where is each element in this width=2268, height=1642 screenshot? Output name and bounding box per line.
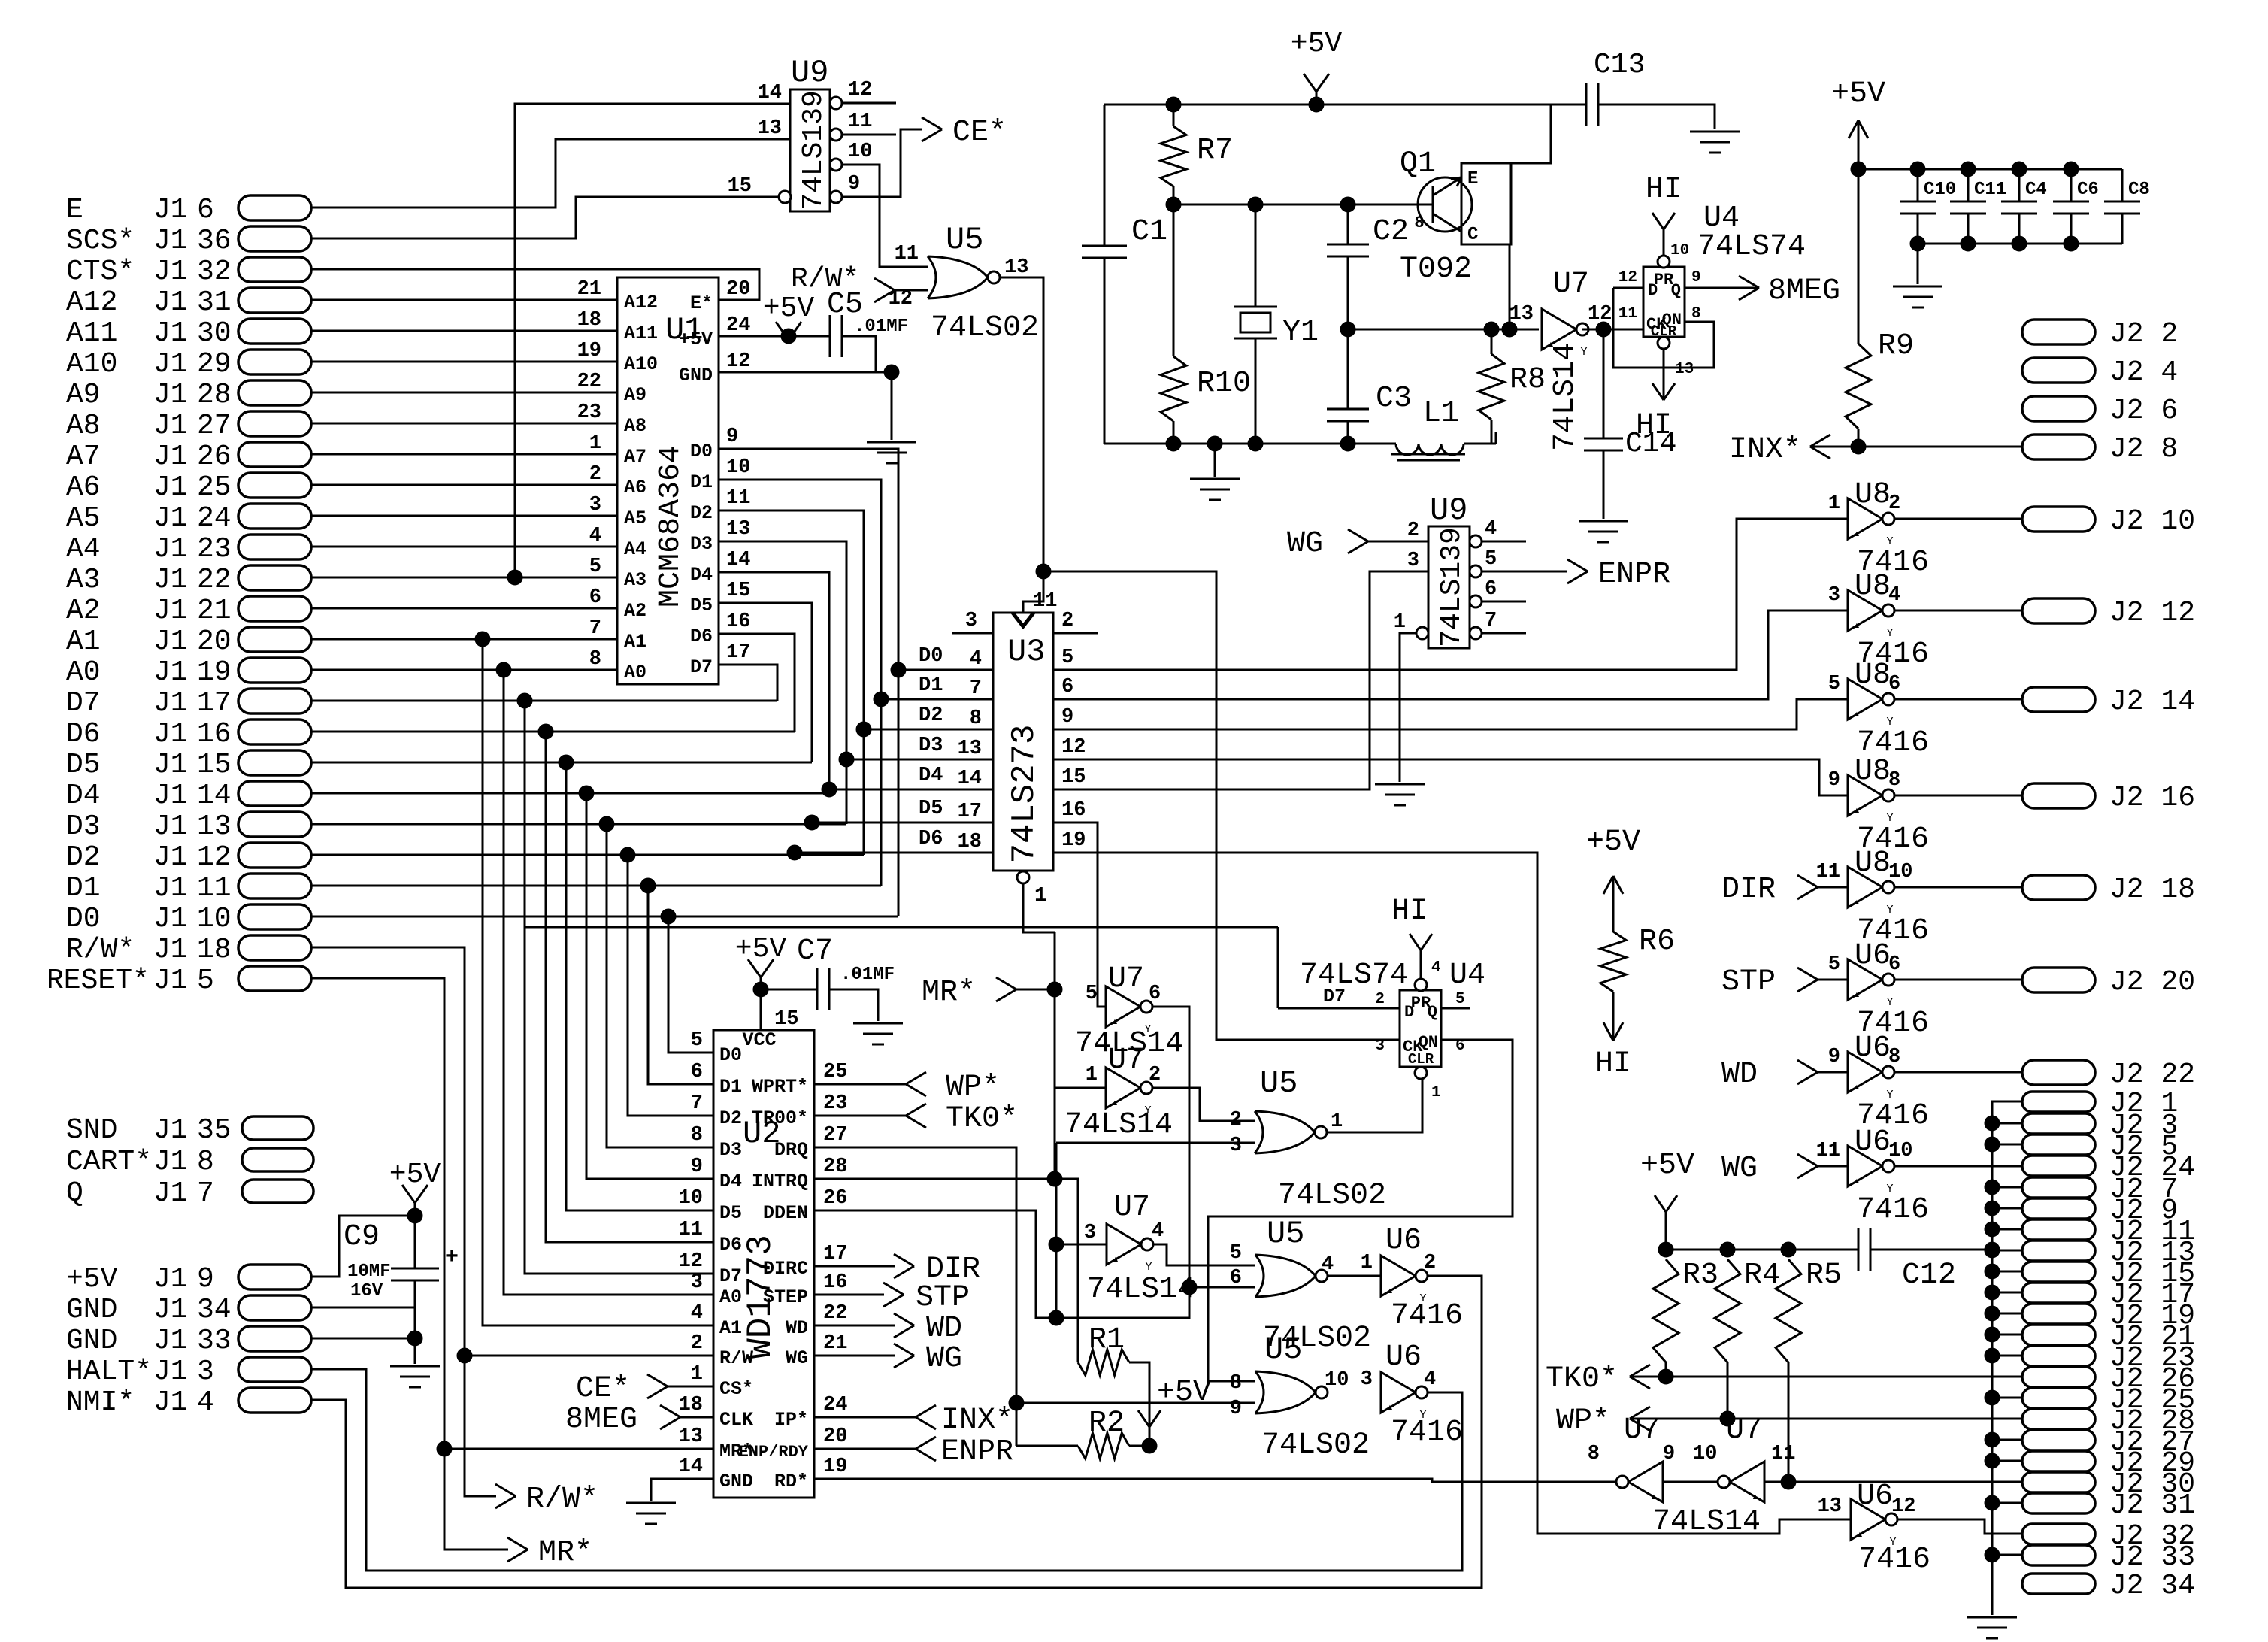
- svg-text:12: 12: [679, 1250, 703, 1273]
- resistor R5: [1776, 1259, 1801, 1362]
- svg-text:D7: D7: [66, 687, 101, 720]
- svg-text:A5: A5: [66, 502, 101, 535]
- svg-text:3: 3: [1407, 550, 1419, 572]
- svg-text:8: 8: [970, 707, 982, 730]
- junction rail R10: [1166, 436, 1181, 451]
- U4 PR pin 10 to HI: [1658, 256, 1670, 268]
- svg-text:74LS139: 74LS139: [1436, 527, 1468, 647]
- svg-text:13: 13: [758, 117, 782, 140]
- svg-text:CE*: CE*: [576, 1372, 630, 1406]
- svg-text:6: 6: [1485, 578, 1497, 601]
- wire U7 pin3 input: [1056, 1244, 1107, 1246]
- svg-text:10: 10: [1888, 861, 1912, 883]
- svg-text:17: 17: [197, 687, 232, 720]
- U2 GND pin to ground: [651, 1479, 713, 1501]
- J2 pin 4 pad: [2022, 358, 2095, 383]
- +5V symbol at C9: [414, 1203, 416, 1216]
- svg-text:11: 11: [1618, 305, 1637, 323]
- junction gnd bus: [1985, 1116, 2000, 1131]
- J2 28 pad: [2022, 1409, 2095, 1429]
- svg-text:2: 2: [1375, 991, 1385, 1008]
- svg-text:D6: D6: [719, 1234, 742, 1256]
- wire C7 to ground: [829, 989, 878, 1021]
- svg-text:J2 12: J2 12: [2109, 597, 2195, 629]
- svg-text:▴: ▴: [1853, 1080, 1861, 1094]
- junction gnd bus: [1985, 1201, 2000, 1216]
- oscillator ground rail: [1104, 443, 1396, 445]
- U4 PR pin 4 to HI: [1415, 979, 1427, 991]
- svg-text:4: 4: [691, 1302, 703, 1325]
- svg-text:DIR: DIR: [1721, 873, 1776, 907]
- svg-text:C8: C8: [2128, 180, 2150, 200]
- svg-text:17: 17: [823, 1243, 847, 1265]
- wire U7 pin1 input: [1055, 1087, 1106, 1089]
- U9 pin 1 bubble to ground: [1416, 627, 1428, 639]
- svg-text:20: 20: [726, 278, 750, 301]
- svg-text:11: 11: [197, 872, 232, 904]
- svg-text:CE*: CE*: [952, 116, 1007, 150]
- J2 18 pad: [2022, 875, 2095, 900]
- wire Q1 emitter to +5V rail: [1511, 105, 1551, 163]
- svg-text:ENPR: ENPR: [941, 1435, 1013, 1469]
- svg-text:D2: D2: [719, 1107, 742, 1129]
- wire U1 D6 to bus: [719, 634, 795, 732]
- svg-text:WG: WG: [926, 1342, 962, 1376]
- +5V symbol above U1 pin 24: [776, 322, 789, 340]
- svg-text:D: D: [1648, 281, 1658, 300]
- svg-text:A11: A11: [624, 323, 658, 344]
- svg-text:3: 3: [1361, 1368, 1373, 1391]
- U3 pin 2 stub: [1053, 632, 1098, 635]
- svg-text:12: 12: [197, 841, 232, 874]
- resistor R10: [1173, 204, 1175, 356]
- svg-text:15: 15: [726, 580, 750, 602]
- svg-text:▴: ▴: [1853, 1174, 1861, 1188]
- svg-text:J1: J1: [153, 286, 188, 319]
- svg-text:CS*: CS*: [719, 1378, 753, 1400]
- svg-text:J1: J1: [153, 626, 188, 658]
- junction +5V cap rail: [1851, 162, 1866, 177]
- svg-text:A0: A0: [66, 656, 101, 689]
- svg-text:25: 25: [197, 471, 232, 504]
- junction bus D2: [856, 722, 871, 737]
- svg-text:14: 14: [958, 768, 982, 790]
- svg-text:U6: U6: [1855, 1032, 1891, 1065]
- svg-text:13: 13: [679, 1425, 703, 1448]
- svg-text:WG: WG: [1287, 527, 1323, 561]
- svg-text:9: 9: [1061, 706, 1073, 729]
- cap bank rail: [1858, 168, 2122, 171]
- svg-text:D4: D4: [919, 765, 943, 787]
- junction bus D1: [874, 692, 889, 707]
- svg-text:D3: D3: [690, 533, 713, 555]
- svg-text:A3: A3: [624, 569, 646, 591]
- svg-text:▴: ▴: [1853, 804, 1861, 817]
- wire U6 to J2 24: [1894, 1165, 2022, 1168]
- svg-text:U6: U6: [1855, 1125, 1891, 1159]
- junction R3 top: [1658, 1242, 1673, 1257]
- svg-text:9: 9: [726, 426, 738, 448]
- svg-text:4: 4: [970, 648, 982, 671]
- svg-text:25: 25: [823, 1061, 847, 1083]
- J2 21 pad: [2022, 1325, 2095, 1345]
- svg-text:R9: R9: [1878, 329, 1914, 363]
- svg-text:74LS02: 74LS02: [931, 311, 1039, 345]
- svg-text:J2 10: J2 10: [2109, 505, 2195, 538]
- wire A0 drop to U2: [311, 669, 504, 671]
- svg-text:A11: A11: [66, 317, 117, 350]
- svg-text:J1: J1: [153, 841, 188, 874]
- STP output tag: [814, 1294, 884, 1296]
- svg-text:7: 7: [197, 1177, 214, 1210]
- svg-text:J1: J1: [153, 471, 188, 504]
- svg-text:A12: A12: [66, 286, 117, 319]
- svg-text:32: 32: [197, 256, 232, 288]
- capacitor C4: [2012, 162, 2027, 177]
- crystal Y1: [1255, 204, 1257, 307]
- svg-text:12: 12: [1588, 303, 1612, 326]
- svg-text:5: 5: [1828, 673, 1840, 695]
- svg-text:27: 27: [823, 1124, 847, 1147]
- wire A1 drop to U2: [311, 638, 483, 641]
- svg-text:A8: A8: [66, 410, 101, 442]
- svg-text:27: 27: [197, 410, 232, 442]
- junction gnd bus: [1985, 1137, 2000, 1152]
- svg-text:U5: U5: [946, 222, 983, 258]
- svg-text:WD: WD: [786, 1317, 808, 1339]
- svg-text:21: 21: [197, 595, 232, 627]
- svg-text:19: 19: [577, 340, 601, 362]
- svg-text:9: 9: [1663, 1443, 1675, 1465]
- svg-text:12: 12: [1891, 1495, 1915, 1518]
- junction gnd bus: [1985, 1264, 2000, 1279]
- junction D6 at drop: [538, 724, 553, 739]
- svg-text:U8: U8: [1855, 570, 1891, 604]
- J2 26 pad: [2022, 1367, 2095, 1387]
- J2 22 pad: [2022, 1060, 2095, 1085]
- svg-text:DRQ: DRQ: [774, 1139, 808, 1161]
- wire clock to U4 CK (via long vertical): [1043, 571, 1400, 1040]
- junction Y1 top: [1248, 197, 1263, 212]
- svg-text:TK0*: TK0*: [946, 1102, 1018, 1136]
- junction rail C3: [1340, 436, 1355, 451]
- svg-text:9: 9: [1230, 1398, 1242, 1420]
- svg-text:36: 36: [197, 225, 232, 257]
- svg-text:6: 6: [691, 1061, 703, 1083]
- INTRQ wire to R1: [814, 1179, 1078, 1362]
- svg-text:E: E: [1467, 169, 1478, 189]
- svg-text:J1: J1: [153, 687, 188, 720]
- junction R7 top: [1166, 97, 1181, 112]
- U3 input pin 4 (D0): [898, 669, 993, 671]
- svg-text:17: 17: [726, 641, 750, 664]
- svg-text:D4: D4: [66, 780, 101, 812]
- svg-text:3: 3: [589, 494, 601, 517]
- svg-text:GND: GND: [719, 1471, 753, 1492]
- wire U1 pin 24 +5V rail: [719, 335, 830, 338]
- wire A0 to U1 pin 8: [311, 669, 617, 671]
- svg-text:IP*: IP*: [774, 1409, 808, 1431]
- svg-text:30: 30: [197, 317, 232, 350]
- svg-text:MR*: MR*: [922, 976, 976, 1010]
- J2 31 pad: [2022, 1493, 2095, 1513]
- wire A8 to U1 pin 23: [311, 423, 617, 425]
- svg-text:▴: ▴: [1112, 1253, 1119, 1266]
- svg-text:74LS02: 74LS02: [1261, 1428, 1370, 1462]
- svg-text:DIRC: DIRC: [763, 1258, 808, 1280]
- svg-text:21: 21: [823, 1332, 847, 1355]
- svg-text:74LS139: 74LS139: [798, 90, 830, 211]
- svg-text:D2: D2: [919, 704, 943, 727]
- svg-text:R10: R10: [1197, 367, 1251, 401]
- svg-text:+5V: +5V: [679, 329, 713, 350]
- svg-text:28: 28: [197, 379, 232, 411]
- svg-text:J1: J1: [153, 810, 188, 843]
- wire DDEN to U5 pin3: [1056, 1142, 1255, 1144]
- svg-text:CTS*: CTS*: [66, 256, 135, 288]
- svg-text:J1: J1: [153, 749, 188, 781]
- R/W* bottom tag: [495, 1484, 516, 1496]
- svg-text:2: 2: [1230, 1109, 1242, 1132]
- cap bank bottom rail: [1918, 243, 2122, 245]
- wire DRQ to U5 pin9: [1016, 1402, 1255, 1404]
- svg-text:J1: J1: [153, 718, 188, 750]
- svg-text:U7: U7: [1114, 1191, 1150, 1225]
- svg-text:.01MF: .01MF: [840, 965, 895, 985]
- U3 pin 5 to U8 buffer 1: [1053, 519, 1848, 670]
- wire U7 pin2 to U5 pin2: [1152, 1088, 1255, 1121]
- svg-text:J1: J1: [153, 780, 188, 812]
- junction A1 at drop: [475, 632, 490, 647]
- J2 ground bus: [1992, 1101, 2022, 1615]
- svg-text:U8: U8: [1855, 755, 1891, 789]
- svg-text:14: 14: [726, 549, 750, 571]
- svg-text:13: 13: [197, 810, 232, 843]
- junction U7 out: [1596, 322, 1611, 337]
- U4 CLR pin 1 bubble: [1415, 1067, 1427, 1079]
- svg-text:J2 33: J2 33: [2109, 1541, 2195, 1574]
- svg-text:C: C: [1467, 225, 1478, 245]
- svg-text:12: 12: [848, 79, 872, 101]
- svg-text:J2 2: J2 2: [2109, 318, 2178, 350]
- svg-text:5: 5: [691, 1029, 703, 1052]
- U3 pin 6 to U8 buffer 2: [1053, 610, 1848, 699]
- svg-text:16: 16: [1061, 799, 1086, 822]
- svg-text:1: 1: [1331, 1110, 1343, 1133]
- svg-text:15: 15: [774, 1008, 798, 1031]
- svg-text:6: 6: [197, 194, 214, 226]
- junction D4 at drop: [579, 786, 594, 801]
- wire U1 pin 12 GND: [719, 371, 892, 374]
- wire RESET* to U2 MR*: [311, 978, 508, 1550]
- svg-text:10: 10: [197, 903, 232, 935]
- wire to C14: [1603, 329, 1605, 438]
- WD output tag: [814, 1325, 895, 1327]
- svg-text:11: 11: [1771, 1443, 1795, 1465]
- U3 input pin 7 (D1): [881, 698, 993, 701]
- capacitor C1: [1104, 105, 1106, 246]
- svg-text:1: 1: [1828, 492, 1840, 515]
- junction bus C12: [1985, 1242, 2000, 1257]
- svg-text:+: +: [445, 1245, 459, 1271]
- wire U8 to J2 18: [1894, 886, 2022, 889]
- J2 25 pad: [2022, 1388, 2095, 1408]
- svg-text:TR00*: TR00*: [752, 1107, 808, 1129]
- junction U5 pin6: [1182, 1280, 1197, 1295]
- svg-text:74LS14: 74LS14: [1549, 343, 1582, 451]
- svg-text:3: 3: [1375, 1038, 1385, 1055]
- capacitor C8: [2121, 169, 2124, 201]
- junction gnd bus: [1985, 1547, 2000, 1562]
- junction rail gnd: [1207, 436, 1222, 451]
- U9 pin 7 stub: [1470, 627, 1482, 639]
- svg-text:NMI*: NMI*: [66, 1386, 135, 1419]
- ground at C9: [390, 1365, 440, 1368]
- svg-text:J2 20: J2 20: [2109, 966, 2195, 998]
- svg-text:MCM68A364: MCM68A364: [654, 445, 688, 607]
- J2 pin 2 pad: [2022, 320, 2095, 344]
- svg-text:U4: U4: [1449, 959, 1485, 992]
- svg-text:J2 18: J2 18: [2109, 874, 2195, 906]
- svg-text:6: 6: [1888, 673, 1900, 695]
- svg-text:▴: ▴: [1853, 527, 1861, 541]
- wire C13 to ground: [1598, 105, 1715, 129]
- WP* tag at U2: [814, 1083, 906, 1086]
- svg-text:2: 2: [691, 1332, 703, 1355]
- svg-text:A5: A5: [624, 507, 646, 529]
- wire D1 drop to U2: [311, 885, 881, 887]
- wire C12 to bus: [1870, 1249, 1992, 1251]
- svg-text:U6: U6: [1857, 1480, 1893, 1513]
- svg-text:A1: A1: [624, 631, 646, 653]
- svg-text:J2 4: J2 4: [2109, 356, 2178, 389]
- capacitor C14: [1584, 438, 1623, 440]
- svg-text:8: 8: [589, 648, 601, 671]
- svg-text:A2: A2: [66, 595, 101, 627]
- svg-text:D2: D2: [690, 502, 713, 524]
- svg-text:74LS14: 74LS14: [1064, 1108, 1173, 1142]
- svg-text:▴: ▴: [1386, 1401, 1394, 1414]
- FDC U2 WD1773: [713, 1030, 814, 1498]
- junction bus D0: [891, 662, 906, 677]
- svg-text:D0: D0: [719, 1044, 742, 1066]
- svg-text:7416: 7416: [1391, 1416, 1463, 1450]
- svg-text:C12: C12: [1902, 1259, 1956, 1292]
- svg-text:11: 11: [848, 111, 872, 133]
- wire E to U9 pin 13: [311, 139, 790, 208]
- svg-text:4: 4: [197, 1386, 214, 1419]
- svg-text:7: 7: [970, 677, 982, 700]
- svg-text:10: 10: [848, 141, 872, 163]
- wire C5 right plate to GND net: [842, 336, 876, 372]
- junction base node: [1166, 197, 1181, 212]
- svg-text:3: 3: [1230, 1135, 1242, 1157]
- TK0* tag at U2: [814, 1115, 906, 1117]
- junction VCC C7: [753, 982, 768, 997]
- DRQ wire to R2/U5: [814, 1147, 1016, 1446]
- svg-text:RESET*: RESET*: [47, 965, 150, 997]
- svg-text:J1: J1: [153, 533, 188, 565]
- svg-text:3: 3: [965, 610, 977, 632]
- wire A2 to U1 pin 6: [311, 607, 617, 610]
- svg-text:33: 33: [197, 1325, 232, 1357]
- junction R5 top: [1781, 1242, 1796, 1257]
- svg-text:D1: D1: [719, 1076, 742, 1098]
- svg-text:D5: D5: [719, 1202, 742, 1224]
- wire U1 D2 to bus: [719, 510, 864, 855]
- svg-text:11: 11: [679, 1219, 703, 1241]
- ground of oscillator: [1214, 444, 1216, 477]
- junction gnd bus: [1985, 1348, 2000, 1363]
- svg-text:29: 29: [197, 348, 232, 380]
- svg-text:D3: D3: [66, 810, 101, 843]
- svg-text:A12: A12: [624, 292, 658, 314]
- U3 input pin 13 (D3): [846, 759, 993, 761]
- svg-text:R/W*: R/W*: [66, 934, 135, 966]
- U3 input pin 17 (D5): [812, 822, 993, 824]
- wire J2 30 row: [1764, 1481, 2022, 1483]
- J2 pin 6 pad: [2022, 396, 2095, 421]
- junction WP R4: [1720, 1411, 1735, 1426]
- svg-text:6: 6: [1061, 676, 1073, 698]
- J2 pin 8 pad: [2022, 435, 2095, 459]
- svg-text:A8: A8: [624, 415, 646, 437]
- junction TK0 R3: [1658, 1369, 1673, 1384]
- svg-text:J1: J1: [153, 410, 188, 442]
- capacitor C12: [1858, 1228, 1860, 1271]
- svg-text:8: 8: [1888, 769, 1900, 792]
- U4 D pin 2 from D7: [1278, 1007, 1400, 1010]
- U9 pin 9 to CE*: [830, 191, 842, 203]
- svg-text:Y: Y: [1145, 1261, 1152, 1274]
- svg-text:U8: U8: [1855, 478, 1891, 512]
- svg-text:12: 12: [726, 350, 750, 373]
- U3 pin 9 to U8 buffer 3: [1053, 699, 1848, 729]
- junction A3 decode: [507, 570, 522, 585]
- svg-text:U3: U3: [1007, 634, 1045, 670]
- svg-text:J1: J1: [153, 256, 188, 288]
- svg-text:WG: WG: [1721, 1152, 1758, 1186]
- svg-text:4: 4: [589, 525, 601, 547]
- U3 pin 15 to U9 pin 3: [1053, 571, 1428, 789]
- DDEN vertical branch: [1055, 1143, 1058, 1318]
- wire U5 pin4 to U6 in: [1328, 1275, 1381, 1277]
- wire U8 to J2 16: [1894, 795, 2022, 797]
- junction gnd bus: [1985, 1243, 2000, 1258]
- resistor R8: [1491, 329, 1493, 354]
- wire U1 D3 to bus: [719, 541, 846, 824]
- svg-text:R8: R8: [1509, 363, 1546, 397]
- junction gnd bus: [1985, 1285, 2000, 1300]
- svg-text:1: 1: [589, 432, 601, 455]
- svg-text:CART*: CART*: [66, 1146, 152, 1178]
- junction bus D3: [839, 752, 854, 767]
- wire between U7 pair: [1663, 1481, 1718, 1483]
- wire GND J1 34: [311, 1307, 415, 1309]
- svg-text:R6: R6: [1639, 925, 1675, 959]
- svg-text:7416: 7416: [1857, 1193, 1929, 1227]
- J2 27 pad: [2022, 1430, 2095, 1450]
- svg-text:1: 1: [691, 1363, 703, 1386]
- svg-text:+5V: +5V: [1157, 1376, 1211, 1410]
- +5V rail top: [1104, 104, 1551, 106]
- svg-text:26: 26: [197, 441, 232, 473]
- U3 pin 3 stub: [952, 632, 993, 635]
- svg-text:9: 9: [1691, 269, 1701, 286]
- svg-text:C3: C3: [1376, 382, 1412, 416]
- latch U3 74LS273: [993, 613, 1053, 871]
- svg-text:12: 12: [1061, 736, 1086, 759]
